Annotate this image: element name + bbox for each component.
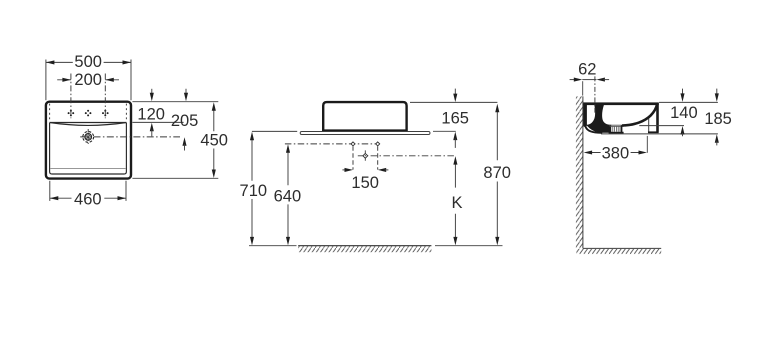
dim 205 bottom arrow bbox=[182, 137, 186, 146]
hidden edge dotted left bbox=[49, 104, 51, 122]
floor line bbox=[583, 247, 661, 249]
basin back funnel wall bbox=[586, 105, 611, 133]
dim 165 top arrow bbox=[454, 89, 456, 96]
foot bottom bar bbox=[648, 131, 659, 133]
dim 120 bottom arrow bbox=[150, 123, 154, 132]
drain bottom bar bbox=[609, 132, 624, 134]
dim 460 ext line right bbox=[125, 181, 127, 201]
svg-text:150: 150 bbox=[351, 174, 379, 192]
dim 200 arrows bbox=[62, 78, 113, 82]
dim 185 top arrow bbox=[716, 89, 718, 95]
svg-text:710: 710 bbox=[240, 182, 268, 200]
dim 62 arrows bbox=[570, 79, 576, 81]
bowl front rim sag curve bbox=[50, 123, 127, 126]
dim 500 ext line left bbox=[45, 60, 47, 101]
wall face line bbox=[582, 96, 584, 248]
dim 460 arrows bbox=[50, 196, 126, 200]
dim 120 top arrow bbox=[151, 89, 153, 95]
basin top reference line right bbox=[410, 101, 497, 103]
dashed drop line right bbox=[377, 146, 379, 169]
centerline hole 1 bbox=[70, 74, 72, 119]
svg-text:205: 205 bbox=[171, 112, 199, 130]
lower centerline (drain) bbox=[358, 155, 456, 157]
dim 185 bottom arrow bbox=[715, 134, 719, 143]
tap hole 1 bbox=[68, 110, 75, 117]
svg-text:185: 185 bbox=[704, 110, 732, 128]
floor line left segment bbox=[249, 245, 297, 247]
wall hatch band bbox=[576, 96, 583, 248]
hidden edge dotted right bbox=[125, 104, 127, 122]
dim 150 left arrow bbox=[342, 169, 346, 171]
tap hole 3 bbox=[102, 110, 109, 117]
dim 140 bottom arrow bbox=[680, 126, 684, 135]
floor hatch band bbox=[576, 249, 661, 254]
countertop reference stub right bbox=[433, 130, 456, 132]
drain mark center bbox=[363, 153, 368, 158]
dim 450 line bbox=[213, 109, 215, 169]
dim 205 top arrow bbox=[185, 89, 187, 95]
dim 150 right arrow bbox=[378, 168, 387, 172]
dim 640 line bbox=[287, 147, 289, 242]
basin outer rect bbox=[46, 102, 131, 179]
svg-text:120: 120 bbox=[137, 105, 165, 123]
dashed drop line left bbox=[352, 146, 354, 169]
basin front rect bbox=[323, 102, 406, 131]
dim 380 line bbox=[590, 152, 640, 154]
svg-text:200: 200 bbox=[74, 71, 102, 89]
drain outer dashed circle bbox=[83, 132, 94, 143]
svg-text:140: 140 bbox=[670, 104, 698, 122]
upper centerline (fixing holes) bbox=[285, 143, 378, 145]
dim 640 arrows bbox=[286, 144, 290, 245]
top reference line right bbox=[132, 101, 218, 103]
rim top reference line bbox=[659, 101, 718, 103]
basin underside reference line bbox=[601, 133, 718, 135]
dim 380 ext line right bbox=[646, 136, 648, 153]
dim 460 line bbox=[50, 197, 126, 199]
drain mark vertical ticks bbox=[364, 150, 366, 161]
tap hole 2 bbox=[85, 110, 92, 117]
dim 140 top arrow bbox=[682, 89, 684, 95]
svg-text:380: 380 bbox=[602, 145, 630, 163]
foot inner line bbox=[648, 119, 650, 133]
floor line hatched segment bbox=[298, 245, 431, 247]
drain horizontal centerline to right bbox=[80, 136, 180, 138]
svg-text:165: 165 bbox=[441, 110, 469, 128]
bowl rear edge faint line bbox=[50, 168, 126, 170]
svg-text:640: 640 bbox=[274, 187, 302, 205]
dim 710 line bbox=[251, 135, 253, 242]
basin left mounting bar bbox=[583, 104, 587, 127]
basin inner bowl walls bbox=[50, 123, 127, 174]
drain cross bbox=[86, 135, 90, 139]
svg-text:450: 450 bbox=[200, 132, 228, 150]
dim 500 ext line right bbox=[130, 60, 132, 101]
dim 500 line bbox=[46, 61, 131, 63]
drain right boundary bbox=[621, 125, 623, 132]
rim reference line right bbox=[132, 121, 183, 123]
drain vertical centermark bbox=[87, 129, 89, 145]
bowl front rim straight line bbox=[50, 122, 127, 124]
dim 500 arrows bbox=[46, 60, 131, 64]
countertop reference line left bbox=[252, 130, 297, 132]
floor line right segment bbox=[435, 245, 503, 247]
basin rim bar bbox=[583, 102, 659, 105]
bowl bottom reference line bbox=[639, 125, 684, 127]
centerline hole 3 bbox=[104, 74, 106, 119]
dim 450 arrows bbox=[212, 102, 216, 178]
basin underside curve bbox=[585, 124, 601, 133]
svg-text:500: 500 bbox=[74, 53, 102, 71]
dim 870 line bbox=[496, 111, 498, 238]
dim K line bbox=[454, 163, 456, 238]
svg-text:62: 62 bbox=[578, 61, 596, 79]
svg-text:460: 460 bbox=[74, 190, 102, 208]
dim 200 line bbox=[57, 79, 119, 81]
dim 165 bottom arrow bbox=[453, 132, 457, 141]
bowl curve bbox=[622, 104, 657, 125]
drain inner circle bbox=[85, 134, 92, 141]
fixing mark right bbox=[376, 142, 380, 146]
dim 62 ext line left bbox=[582, 81, 584, 95]
dim 62 line bbox=[582, 79, 596, 81]
dim K arrows bbox=[453, 156, 457, 245]
dim 380 arrows bbox=[584, 150, 647, 154]
countertop slab bbox=[300, 132, 430, 135]
svg-text:870: 870 bbox=[483, 164, 511, 182]
tap centerline dashed bbox=[594, 76, 596, 112]
floor hatch band bbox=[298, 246, 431, 252]
bottom reference line right bbox=[132, 177, 218, 179]
drain hatch lines bbox=[613, 127, 620, 132]
dim 870 arrows bbox=[495, 104, 499, 246]
fixing mark left bbox=[351, 142, 355, 146]
drain top double line bbox=[609, 125, 626, 126]
dim 460 ext line left bbox=[49, 181, 51, 201]
svg-text:K: K bbox=[451, 194, 462, 212]
dim 710 arrows bbox=[250, 132, 254, 246]
basin right wall bbox=[656, 103, 659, 131]
